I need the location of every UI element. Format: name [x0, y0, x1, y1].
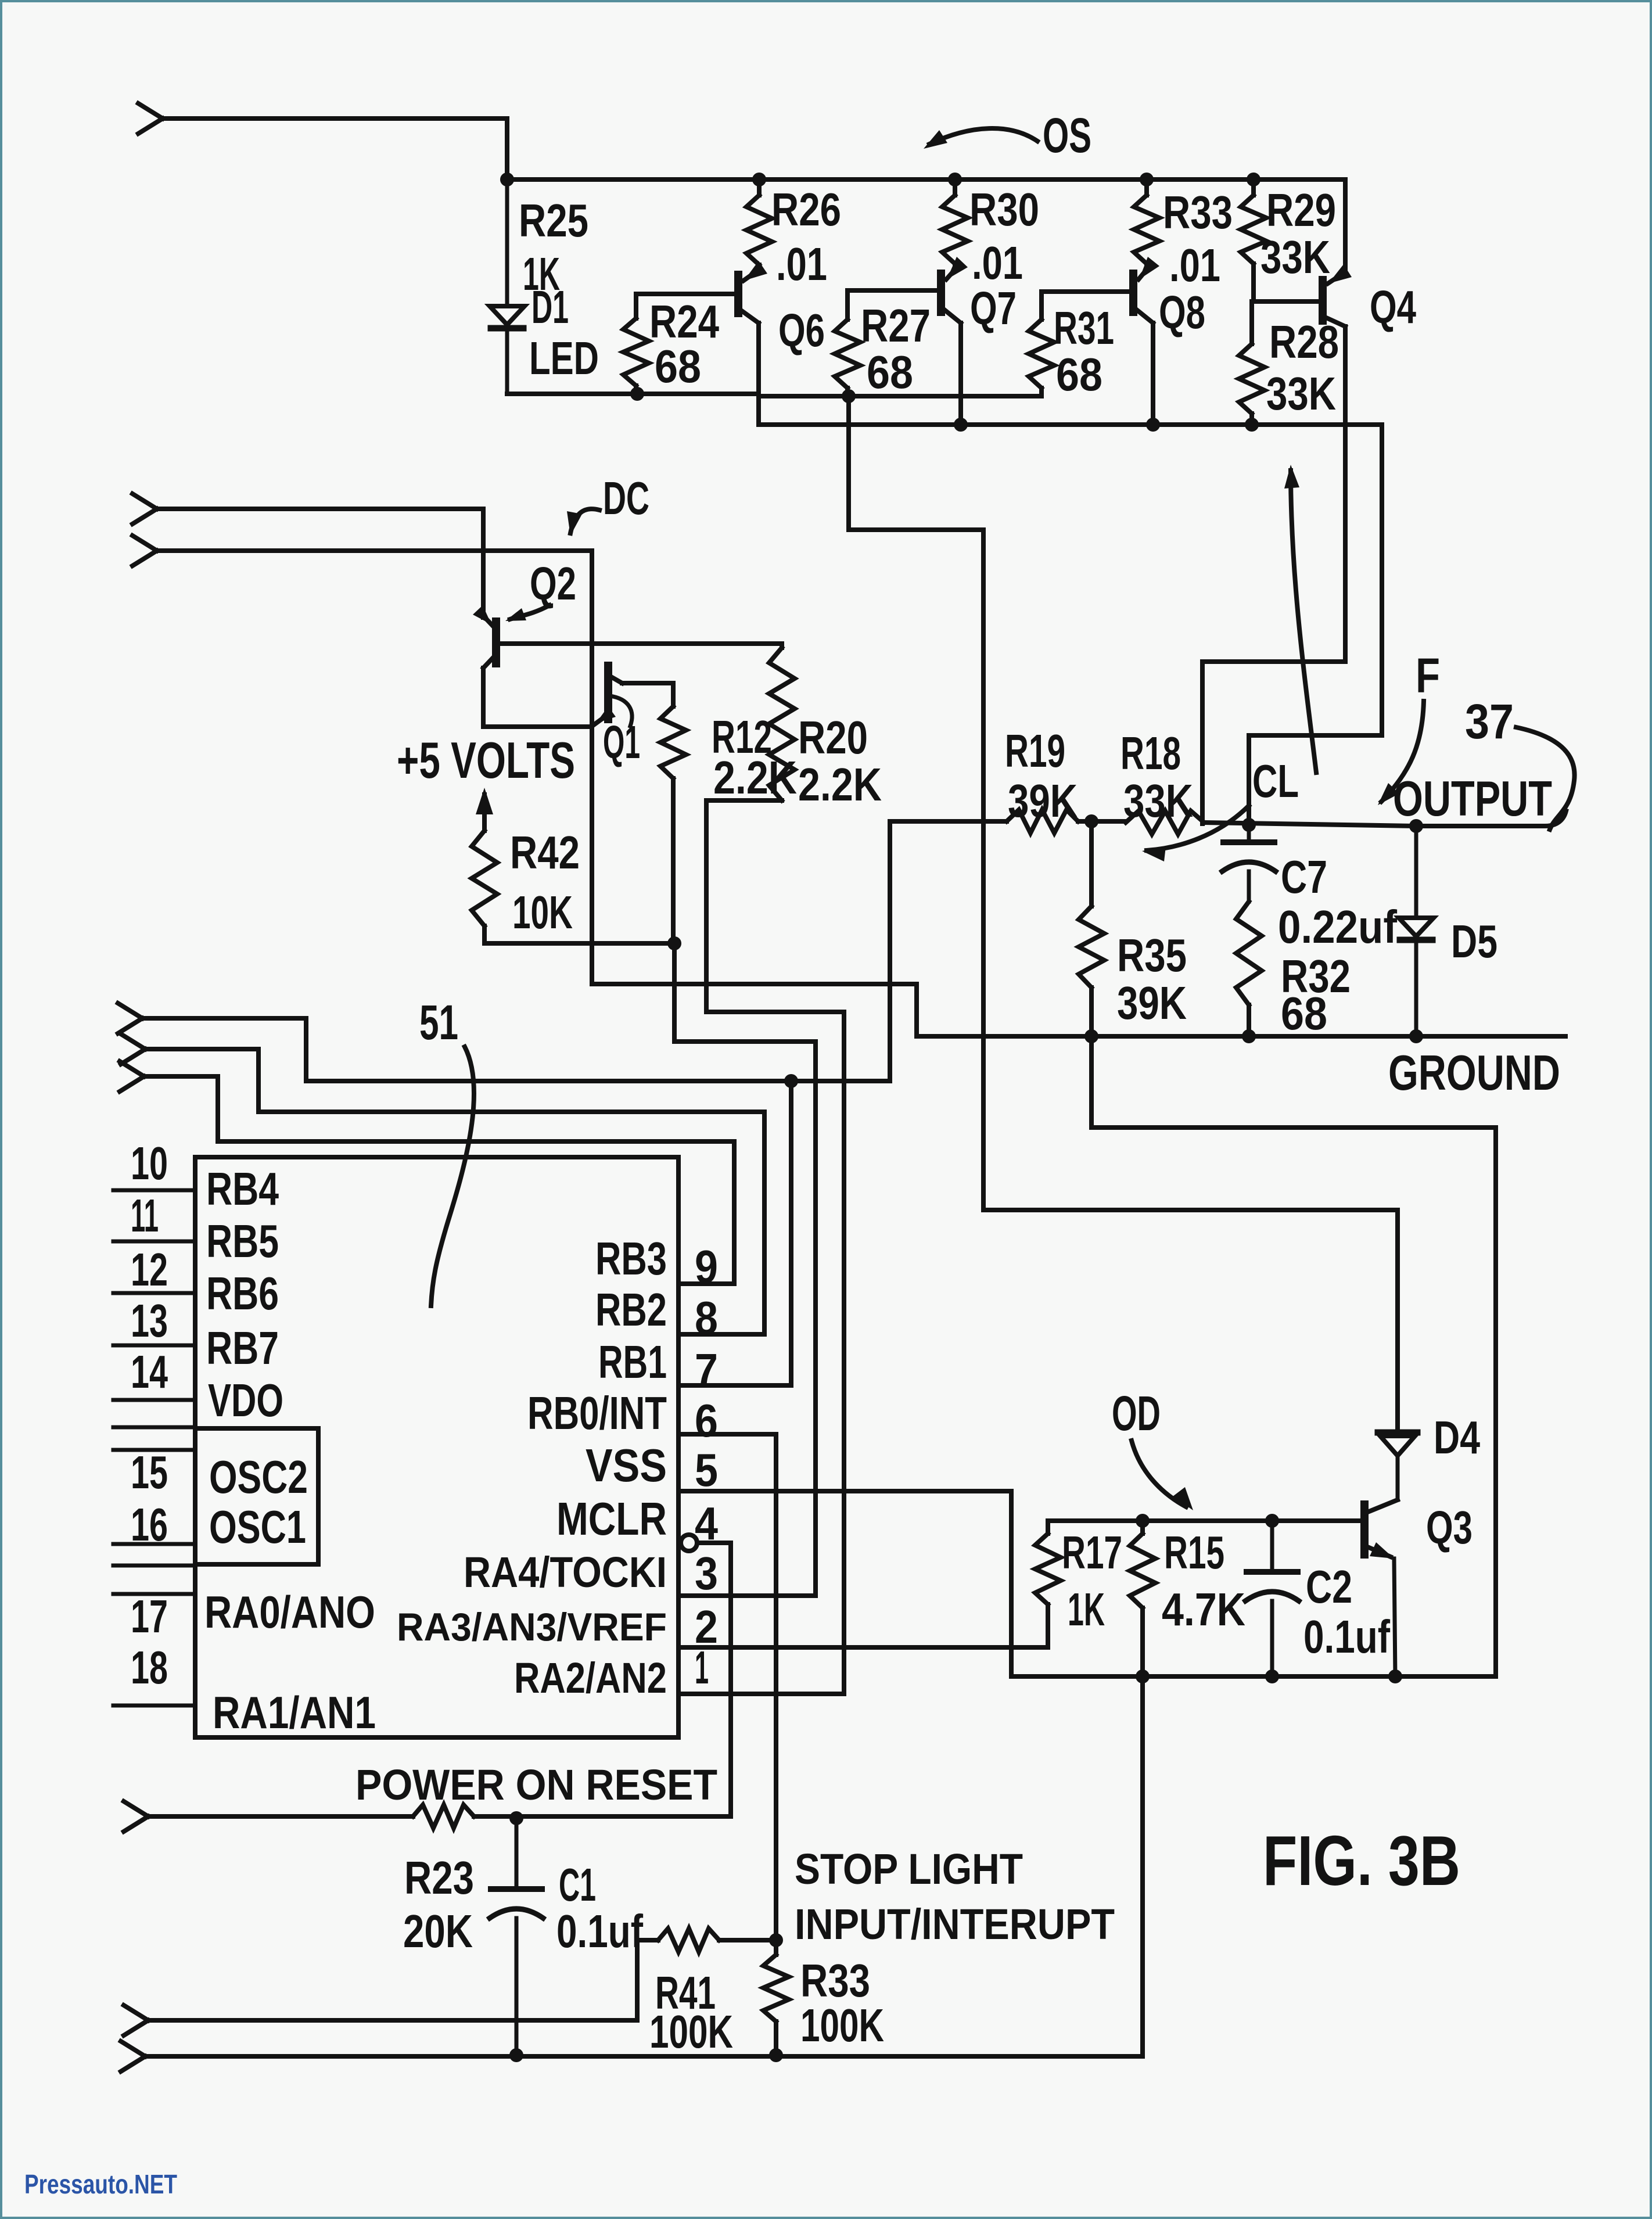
capacitor C1 — [515, 1818, 519, 1886]
svg-text:33K: 33K — [1123, 775, 1193, 827]
diode D5 — [1414, 826, 1418, 915]
svg-text:D5: D5 — [1451, 915, 1497, 967]
svg-text:RA4/TOCKI: RA4/TOCKI — [464, 1548, 667, 1596]
junction C1 top — [509, 1811, 523, 1825]
svg-text:F: F — [1416, 648, 1440, 703]
resistor R24 — [623, 318, 649, 386]
svg-text:RA2/AN2: RA2/AN2 — [514, 1654, 667, 1702]
resistor R33 — [1134, 195, 1159, 264]
wire MCLR to POR — [697, 1543, 731, 1816]
junction R15 top — [1136, 1514, 1150, 1528]
transistor Q3 — [1360, 1505, 1369, 1554]
svg-text:68: 68 — [867, 346, 913, 398]
svg-text:INPUT/INTERUPT: INPUT/INTERUPT — [795, 1900, 1115, 1948]
svg-text:R15: R15 — [1164, 1527, 1224, 1578]
IC U51 body — [195, 1157, 678, 1737]
wire OS bottom rail — [759, 422, 1382, 427]
pin 1 stub wire — [679, 1692, 844, 1696]
svg-text:10: 10 — [131, 1137, 168, 1189]
resistor R29 — [1241, 195, 1266, 264]
svg-text:100K: 100K — [800, 1999, 884, 2051]
leader OD arrow — [1132, 1441, 1186, 1507]
capacitor C2 — [1270, 1521, 1274, 1568]
svg-text:15: 15 — [131, 1446, 168, 1498]
diode D1 LED — [505, 179, 509, 304]
wire rail to CL corner — [1249, 425, 1382, 825]
wire R35 to ground — [1089, 988, 1094, 1036]
resistor R27 — [835, 319, 860, 388]
resistor R19 — [890, 819, 1007, 824]
wire Q7 emitter — [958, 323, 963, 425]
junction R15 bottom — [1136, 1669, 1150, 1683]
wire OS leg to D4 — [849, 396, 1398, 1430]
svg-text:R27: R27 — [861, 300, 931, 351]
wire OS top rail — [507, 179, 1345, 272]
svg-text:OS: OS — [1043, 108, 1091, 163]
resistor R12 — [660, 706, 686, 778]
svg-text:R33: R33 — [1163, 186, 1233, 238]
leader DC arrow — [570, 509, 599, 533]
svg-text:.01: .01 — [972, 237, 1023, 289]
resistor R15 — [1140, 1521, 1145, 1534]
wire D1 bottom rail — [507, 392, 759, 396]
junction R33 bottom — [769, 2048, 783, 2062]
wire bus 3 — [144, 1076, 734, 1284]
junction C2 bottom — [1265, 1669, 1279, 1683]
wire VSS riser to rail — [1009, 1491, 1014, 1676]
svg-text:RB0/INT: RB0/INT — [527, 1387, 667, 1439]
svg-text:.01: .01 — [776, 238, 827, 290]
svg-text:4.7K: 4.7K — [1162, 1584, 1245, 1635]
resistor R30 — [942, 195, 968, 264]
pin stub — [113, 1426, 195, 1430]
svg-text:68: 68 — [1281, 988, 1327, 1039]
svg-text:39K: 39K — [1117, 977, 1187, 1029]
svg-text:Q6: Q6 — [778, 304, 825, 356]
svg-text:POWER ON RESET: POWER ON RESET — [355, 1761, 717, 1809]
pin stub — [113, 1564, 195, 1568]
junction D5 top — [1409, 819, 1423, 833]
svg-text:R31: R31 — [1054, 302, 1114, 354]
svg-text:R25: R25 — [519, 195, 588, 246]
svg-text:GROUND: GROUND — [1388, 1046, 1560, 1101]
pin 11 stub — [113, 1240, 195, 1244]
diode D4 — [1378, 1430, 1417, 1436]
svg-text:0.1uf: 0.1uf — [1303, 1611, 1390, 1663]
junction C2 top — [1265, 1514, 1279, 1528]
leader F arrow — [1381, 701, 1424, 802]
pin 8 stub wire — [679, 1332, 764, 1337]
svg-text:CL: CL — [1252, 755, 1299, 807]
svg-text:+5 VOLTS: +5 VOLTS — [397, 731, 575, 789]
junction R35 ground — [1084, 1029, 1098, 1043]
node bus input arrow 3 — [120, 1061, 144, 1091]
wire Q3 bottom rail — [1011, 1674, 1496, 1679]
svg-text:RA3/AN3/VREF: RA3/AN3/VREF — [397, 1605, 667, 1649]
junction Q7 emitter rail — [954, 418, 968, 432]
leader Q2 arrow — [510, 605, 550, 619]
wire stoplight 2 to R41 — [148, 1940, 658, 2020]
svg-text:R28: R28 — [1269, 316, 1339, 368]
svg-text:R18: R18 — [1121, 727, 1181, 779]
junction D5 ground — [1409, 1029, 1423, 1043]
pin 5 VSS wire — [679, 1489, 1011, 1493]
junction R29 top — [1247, 173, 1260, 186]
svg-text:14: 14 — [131, 1346, 168, 1398]
svg-text:MCLR: MCLR — [556, 1493, 667, 1545]
svg-text:.01: .01 — [1169, 239, 1220, 291]
svg-text:Q1: Q1 — [603, 716, 640, 768]
svg-text:16: 16 — [131, 1499, 168, 1550]
wire bus 1 — [142, 1018, 890, 1081]
svg-text:3: 3 — [695, 1547, 718, 1599]
wire Q2 base to R20 — [498, 641, 782, 646]
svg-text:OSC2: OSC2 — [209, 1451, 308, 1503]
node bus input arrow 1 — [118, 1003, 142, 1033]
wire Q4 base — [1254, 299, 1320, 304]
svg-text:100K: 100K — [649, 2006, 733, 2058]
wire CL output row — [1204, 811, 1566, 826]
pin 9 stub wire — [679, 1281, 734, 1286]
wire Q8 emitter — [1151, 323, 1155, 425]
wire POR left — [148, 1814, 413, 1819]
svg-text:39K: 39K — [1008, 775, 1078, 827]
pin 3 stub wire — [679, 1593, 816, 1598]
svg-text:37: 37 — [1465, 694, 1514, 749]
leader OS arrow — [929, 128, 1037, 144]
svg-text:68: 68 — [655, 340, 701, 392]
wire Q1 collector to R12 — [622, 683, 673, 706]
resistor R35 — [1089, 821, 1094, 906]
svg-text:33K: 33K — [1266, 368, 1336, 419]
svg-text:68: 68 — [1056, 349, 1102, 400]
svg-text:51: 51 — [419, 995, 458, 1050]
pin 12 stub — [113, 1291, 195, 1295]
svg-text:D1: D1 — [531, 281, 569, 333]
junction C1 bottom — [509, 2048, 523, 2062]
junction R30 top — [948, 173, 962, 186]
junction R28 bottom — [1245, 418, 1259, 432]
svg-text:R17: R17 — [1062, 1527, 1122, 1578]
node bus input arrow 2 — [121, 1034, 145, 1064]
svg-text:VDO: VDO — [208, 1374, 283, 1426]
svg-text:Pressauto.NET: Pressauto.NET — [24, 2169, 177, 2199]
svg-text:R24: R24 — [649, 296, 719, 347]
junction R33 top — [1140, 173, 1154, 186]
resistor R26 — [746, 195, 772, 265]
pin 18 stub — [113, 1704, 195, 1708]
pin 7 stub wire — [679, 1383, 791, 1388]
junction top rail — [500, 173, 514, 186]
junction Q8 emitter rail — [1146, 418, 1160, 432]
svg-text:0.22uf: 0.22uf — [1278, 901, 1397, 953]
svg-text:Q7: Q7 — [970, 282, 1017, 334]
transistor Q7 — [937, 274, 945, 312]
leader CL arrow — [1147, 806, 1249, 850]
svg-text:RA1/AN1: RA1/AN1 — [213, 1687, 376, 1738]
svg-text:R33: R33 — [800, 1955, 870, 2006]
pin 13 stub — [113, 1344, 195, 1348]
svg-text:18: 18 — [131, 1642, 168, 1693]
junction R24 bottom — [630, 387, 644, 401]
node +5 volts arrow — [482, 795, 487, 831]
resistor R33b — [774, 1940, 778, 1955]
junction R19 R18 — [1084, 814, 1098, 828]
wire DC input 2 down Q1 — [157, 551, 592, 984]
junction CL node — [1242, 818, 1256, 832]
transistor Q1 — [604, 666, 612, 719]
svg-text:DC: DC — [603, 472, 649, 524]
svg-text:R19: R19 — [1005, 725, 1065, 777]
node DC input arrow 2 — [132, 536, 157, 566]
svg-text:OSC1: OSC1 — [209, 1501, 306, 1553]
svg-text:RB4: RB4 — [206, 1163, 279, 1215]
svg-text:FIG. 3B: FIG. 3B — [1263, 1821, 1460, 1900]
pin 4 MCLR circle — [681, 1535, 697, 1551]
resistor R32 — [1236, 902, 1262, 1005]
svg-text:0.1uf: 0.1uf — [556, 1905, 643, 1957]
resistor R42 — [472, 831, 497, 926]
svg-text:RB3: RB3 — [595, 1233, 667, 1284]
svg-text:5: 5 — [695, 1444, 718, 1496]
pin 14 stub — [113, 1398, 195, 1402]
junction R27 bottom — [842, 389, 856, 403]
svg-text:Q3: Q3 — [1426, 1502, 1473, 1553]
transistor Q8 — [1129, 274, 1137, 312]
svg-text:R20: R20 — [798, 712, 868, 763]
svg-text:OD: OD — [1112, 1386, 1161, 1441]
junction R26 top — [752, 173, 766, 186]
wire ground rail — [917, 1034, 1565, 1039]
svg-text:VSS: VSS — [586, 1439, 667, 1491]
svg-text:2.2K: 2.2K — [798, 759, 882, 810]
wire R20 bottom to pin1 bus — [706, 1012, 844, 1694]
pin 16 stub — [113, 1542, 195, 1546]
svg-text:17: 17 — [131, 1590, 168, 1642]
svg-text:RB1: RB1 — [598, 1336, 667, 1388]
resistor R31 — [1029, 319, 1054, 388]
svg-text:D4: D4 — [1434, 1412, 1480, 1463]
pin 15 stub — [113, 1448, 195, 1452]
svg-text:11: 11 — [131, 1190, 159, 1241]
svg-text:13: 13 — [131, 1295, 168, 1347]
svg-text:C2: C2 — [1306, 1561, 1352, 1613]
resistor R20 — [769, 648, 795, 800]
wire DC input 1 — [157, 509, 483, 617]
svg-text:Q8: Q8 — [1159, 286, 1205, 338]
IC oscillator sub-box — [195, 1428, 318, 1564]
transistor Q4 — [1319, 280, 1327, 321]
junction R41 R33 — [769, 1933, 783, 1947]
wire R12 bottom to pin3 bus — [674, 943, 816, 1596]
svg-text:R42: R42 — [510, 827, 580, 878]
svg-text:R35: R35 — [1117, 929, 1187, 981]
svg-text:LED: LED — [529, 332, 599, 384]
resistor R28 — [1239, 344, 1265, 414]
node stoplight input arrow 3 — [121, 2041, 145, 2071]
pin 17 stub — [113, 1592, 195, 1596]
resistor R23 — [413, 1805, 474, 1828]
junction bus1 pin7 — [784, 1074, 798, 1088]
leader 51 squiggle — [431, 1047, 474, 1306]
pin 10 stub — [113, 1189, 195, 1193]
junction R32 ground — [1242, 1029, 1256, 1043]
wire Q1 emitter to ground jog — [592, 984, 917, 1036]
svg-text:RB7: RB7 — [206, 1322, 279, 1374]
svg-text:RA0/ANO: RA0/ANO — [204, 1586, 375, 1638]
wire OS input — [163, 119, 507, 179]
junction Q3 emitter bottom — [1388, 1669, 1402, 1683]
wire rail 682 — [759, 394, 1042, 398]
svg-text:RB5: RB5 — [206, 1215, 279, 1267]
pin 6 stub wire to stoplight — [679, 1434, 776, 1940]
svg-text:C1: C1 — [559, 1859, 596, 1911]
svg-text:R23: R23 — [404, 1852, 474, 1904]
svg-text:C7: C7 — [1281, 851, 1327, 903]
wire Q2 collector — [483, 668, 592, 727]
leader Q1 hook — [610, 696, 632, 726]
transistor Q2 — [492, 622, 500, 663]
wire bus1 to pin 7 — [789, 1081, 793, 1385]
svg-text:R26: R26 — [771, 184, 841, 235]
junction R42 R12 — [667, 936, 681, 950]
leader long arrow to F node — [1291, 471, 1316, 773]
resistor R18 — [1126, 811, 1204, 834]
svg-text:10K: 10K — [512, 886, 573, 938]
leader 37 squiggle — [1516, 727, 1575, 830]
svg-text:7: 7 — [695, 1344, 718, 1396]
wire stoplight bottom rail — [145, 1676, 1143, 2056]
svg-text:1K: 1K — [1068, 1584, 1105, 1635]
node stoplight input arrow 2 — [124, 2005, 148, 2035]
wire Q4 emitter down — [1202, 326, 1345, 824]
node OS input arrow — [138, 103, 163, 134]
resistor R17 — [1046, 1521, 1050, 1534]
svg-text:RB2: RB2 — [595, 1284, 667, 1335]
wire Q3 base rail — [1048, 1518, 1363, 1523]
wire bus 2 — [145, 1049, 764, 1334]
svg-text:Q4: Q4 — [1370, 281, 1416, 333]
svg-text:33K: 33K — [1260, 231, 1330, 283]
svg-text:6: 6 — [695, 1395, 718, 1446]
svg-text:R29: R29 — [1266, 184, 1336, 236]
pin 2 wire to R17 — [679, 1645, 1046, 1650]
node DC input arrow 1 — [132, 494, 157, 524]
svg-text:R30: R30 — [969, 184, 1039, 235]
node POR input arrow — [124, 1801, 148, 1832]
svg-text:20K: 20K — [403, 1905, 473, 1957]
wire R19 left riser — [888, 821, 892, 1081]
transistor Q6 — [734, 275, 742, 313]
resistor R41 — [658, 1929, 719, 1952]
wire Q6 emitter — [756, 323, 761, 425]
wire ground to Q3 rail — [1091, 1036, 1496, 1676]
svg-text:12: 12 — [131, 1244, 168, 1295]
svg-text:Q2: Q2 — [530, 558, 576, 609]
svg-text:RB6: RB6 — [206, 1268, 279, 1319]
svg-text:STOP LIGHT: STOP LIGHT — [795, 1845, 1023, 1893]
capacitor C7 — [1247, 825, 1251, 839]
svg-text:OUTPUT: OUTPUT — [1393, 771, 1552, 827]
wire POR right — [474, 1814, 731, 1819]
